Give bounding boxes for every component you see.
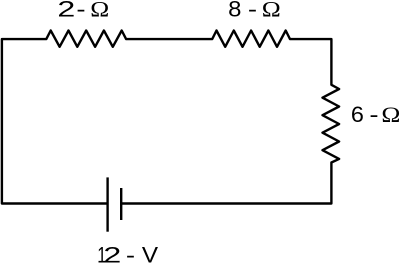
- battery B1 left plate (long): [106, 177, 108, 231]
- svg-text:Ω: Ω: [381, 102, 400, 127]
- svg-text:Ω: Ω: [90, 0, 109, 21]
- label resistor R2 value 8 ohm: [228, 0, 281, 21]
- svg-text:V: V: [142, 242, 159, 263]
- label resistor R1 value 2 ohm: [57, 0, 109, 21]
- svg-text:2: 2: [103, 242, 121, 263]
- wire main loop with resistors R1 R2 R3 inline, gap at battery: [2, 31, 339, 204]
- svg-text:-: -: [76, 0, 85, 21]
- svg-text:-: -: [126, 242, 135, 263]
- svg-text:6: 6: [351, 102, 364, 127]
- svg-text:Ω: Ω: [262, 0, 281, 21]
- label battery B1 value 12 V: [97, 242, 158, 263]
- svg-text:-: -: [248, 0, 257, 21]
- battery B1 right plate (short): [120, 188, 122, 220]
- svg-text:8: 8: [228, 0, 241, 21]
- svg-text:-: -: [369, 102, 378, 127]
- label resistor R3 value 6 ohm: [351, 102, 400, 127]
- svg-text:2: 2: [57, 0, 75, 21]
